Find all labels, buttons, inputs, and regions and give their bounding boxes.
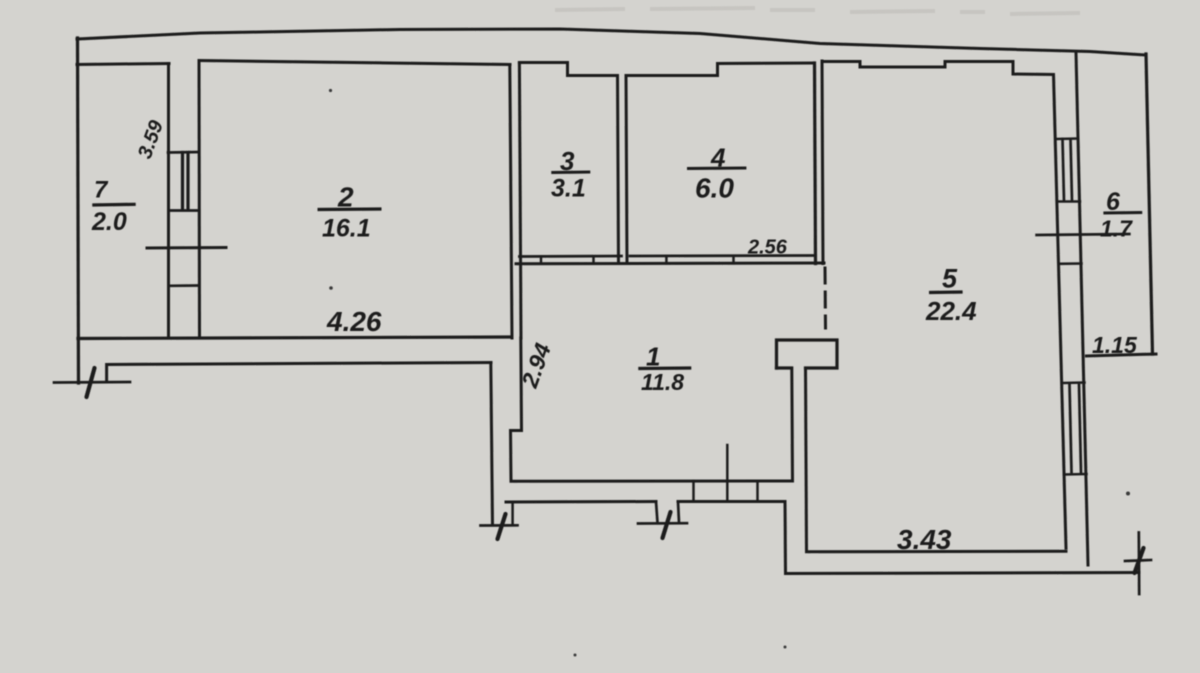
svg-text:11.8: 11.8 bbox=[641, 369, 684, 395]
door 7/2 leaf bbox=[181, 153, 184, 210]
rooms 3-4 bottom outer wall line bbox=[516, 262, 824, 266]
room 5 top wall with notches bbox=[822, 62, 1053, 75]
wall 2/3 left line bbox=[510, 65, 512, 339]
tick in wall 5/6 bbox=[1059, 262, 1082, 265]
dim vertical right bbox=[1137, 533, 1140, 595]
door 7/2 top jamb bbox=[168, 151, 199, 154]
dim tick under neck bbox=[481, 524, 518, 527]
rooms 3-4 bottom inner wall line (room 3) bbox=[519, 255, 621, 258]
dim line under entrance bbox=[638, 522, 687, 525]
svg-text:4.26: 4.26 bbox=[326, 306, 382, 337]
svg-text:3.43: 3.43 bbox=[897, 524, 952, 555]
svg-text:5: 5 bbox=[942, 264, 958, 294]
outer right wall bbox=[1146, 54, 1153, 354]
door jambs room 3 bottom bbox=[540, 256, 543, 263]
wall 7/2 left line bbox=[167, 64, 170, 339]
room 2 + room 7 bottom wall bbox=[78, 337, 512, 339]
corridor neck left wall bbox=[491, 363, 493, 526]
wall 4/5 right line bbox=[822, 61, 823, 264]
jamb tick left bbox=[511, 502, 514, 525]
dim tick right bottom bbox=[1125, 560, 1151, 561]
dashed boundary room1/room5 bbox=[824, 268, 828, 328]
wall 4/5 left line bbox=[815, 63, 816, 264]
svg-text:3.1: 3.1 bbox=[551, 175, 586, 203]
tall extension line bbox=[726, 445, 729, 502]
wall 3/4 left line bbox=[618, 76, 619, 264]
T pillar top bar bbox=[777, 340, 838, 368]
corridor top wall bbox=[107, 363, 491, 382]
corridor outer bottom wall right part bbox=[678, 500, 785, 503]
window W1 in wall 5/6 top jamb bbox=[1056, 137, 1079, 140]
door 7/2 bottom jamb bbox=[171, 209, 197, 212]
wall 3/4 right line bbox=[626, 76, 627, 264]
outer left wall bbox=[78, 38, 79, 383]
svg-text:1.15: 1.15 bbox=[1092, 332, 1138, 358]
slash bottom-left bbox=[87, 368, 95, 397]
wall 5/6 left line bbox=[1054, 75, 1067, 549]
room 7 top wall bbox=[77, 64, 169, 65]
svg-text:16.1: 16.1 bbox=[322, 215, 371, 243]
svg-text:22.4: 22.4 bbox=[925, 296, 977, 326]
wall 5/6 right line bbox=[1076, 53, 1088, 565]
svg-text:1.7: 1.7 bbox=[1100, 216, 1133, 242]
svg-text:2.56: 2.56 bbox=[747, 237, 788, 259]
room labels bbox=[91, 117, 1142, 555]
window W1 leaf bbox=[1063, 139, 1065, 201]
room 3 top wall bbox=[519, 63, 617, 76]
rooms 3-4 bottom inner wall line (room 4) bbox=[630, 254, 814, 257]
outer top curved wall bbox=[77, 29, 1146, 55]
room 4 top wall bbox=[627, 63, 815, 76]
svg-text:6.0: 6.0 bbox=[695, 173, 734, 204]
entrance door jambs bbox=[656, 502, 658, 523]
T pillar stem right line bbox=[806, 368, 807, 552]
opening bottom jamb wall 7/2 bbox=[170, 284, 198, 287]
room 6 bottom wall / 1.15 dimension line bbox=[1087, 354, 1157, 356]
small specks bbox=[329, 89, 1130, 657]
outer corner down to room5 bottom bbox=[784, 502, 788, 574]
slash under neck bbox=[498, 514, 506, 539]
line under room 6 label bbox=[1037, 234, 1130, 235]
T pillar stem left line bbox=[790, 368, 794, 481]
door jambs room 4 bottom bbox=[665, 256, 668, 263]
wall 2/3 right line bbox=[519, 63, 521, 338]
opening crossing line at wall 7/2 bbox=[147, 246, 226, 250]
room5 bottom inner wall bbox=[807, 550, 1067, 554]
slash bottom-right bbox=[1135, 548, 1144, 573]
corridor outer bottom wall left part bbox=[506, 500, 656, 504]
window W2 top jamb bbox=[1062, 381, 1085, 384]
room 2 top wall bbox=[199, 61, 510, 65]
room5 bottom outer wall / 3.43 dim line bbox=[786, 573, 1140, 574]
slash under entrance bbox=[663, 512, 671, 538]
svg-text:7: 7 bbox=[94, 177, 109, 204]
corridor inner bottom wall bbox=[511, 480, 792, 483]
svg-text:2.0: 2.0 bbox=[91, 208, 127, 236]
dim line bottom-left bbox=[54, 381, 130, 384]
wall ticks right of entrance bbox=[692, 481, 695, 502]
window W2 leaf bbox=[1070, 385, 1072, 472]
corridor neck right wall with jog bbox=[511, 338, 522, 481]
window W2 bottom jamb bbox=[1064, 473, 1087, 476]
ghost scan marks top bbox=[555, 8, 1080, 14]
wall 7/2 right line bbox=[198, 61, 202, 338]
window W1 bottom jamb bbox=[1057, 200, 1080, 203]
dimension slash marks bbox=[87, 368, 1144, 573]
